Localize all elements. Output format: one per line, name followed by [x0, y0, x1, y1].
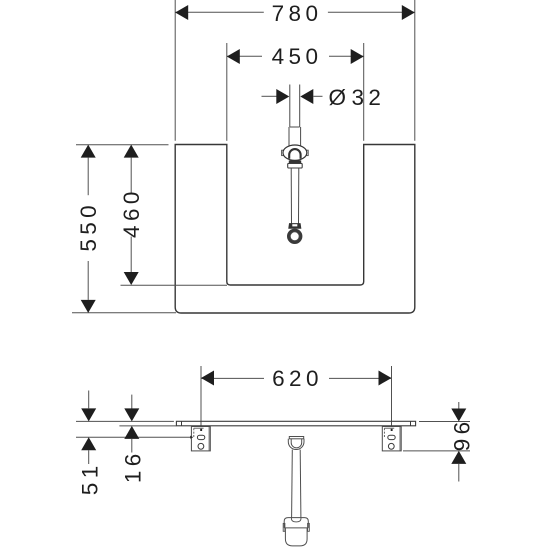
dimension line 460: [130, 158, 132, 272]
svg-text:51: 51: [77, 461, 102, 495]
drain fitting dark band: [289, 160, 301, 163]
extension line right of dim 780: [414, 0, 416, 141]
arrow bottom 550: [81, 300, 96, 313]
extension line right of dim 620: [391, 366, 393, 430]
label Ø32: [328, 85, 380, 110]
label 460: [119, 187, 144, 238]
extension line left of dim 450: [226, 43, 228, 141]
extension line bottom outer (550 datum): [72, 312, 176, 314]
siphon cup: [283, 518, 309, 546]
dimension 16 arrows: [124, 395, 139, 453]
arrow left 780: [175, 5, 188, 20]
extension line bracket bottom right (96 datum): [403, 450, 470, 452]
dimension line 550: [87, 158, 89, 300]
label 620: [272, 366, 323, 391]
drain hose end cap: [289, 224, 301, 229]
dimension Ø32 leader left: [262, 95, 277, 97]
arrow right 450: [351, 49, 364, 64]
arrow Ø32 right (points left): [300, 89, 313, 104]
extension line right of dim 450: [363, 43, 365, 141]
dimension Ø32 leader right: [313, 95, 322, 97]
extension line plate bottom left (16 datum): [119, 425, 176, 427]
svg-text:550: 550: [76, 201, 101, 252]
dimension 51 arrows: [81, 391, 96, 465]
extension line top (550/460 datum): [76, 144, 169, 146]
siphon pipe: [292, 450, 301, 518]
arrow right 780: [402, 5, 415, 20]
right bracket: [382, 427, 401, 451]
dimension line 450: [227, 55, 364, 57]
dimension line 780: [175, 11, 415, 13]
arrow top 460: [124, 145, 139, 158]
arrow left 620: [201, 371, 214, 386]
drain pipe top section: [289, 85, 301, 146]
console plate: [176, 421, 415, 426]
svg-text:3: 3: [351, 85, 364, 110]
left bracket: [191, 427, 210, 451]
drain fitting side tabs: [282, 150, 309, 155]
extension line bottom inner (460 datum): [121, 284, 228, 286]
arrow right 620: [379, 371, 392, 386]
arrow Ø32 left (points right): [276, 89, 289, 104]
basin outline (top view): [175, 145, 415, 314]
arrow left 450: [227, 49, 240, 64]
extension line left of dim 780: [174, 0, 176, 141]
label 780: [272, 1, 323, 26]
dimension 96 arrows: [451, 402, 466, 482]
label 51: [77, 461, 102, 495]
arrow bottom 460: [124, 272, 139, 285]
svg-text:2: 2: [368, 85, 381, 110]
svg-text:450: 450: [272, 44, 323, 69]
drain hose: [291, 168, 299, 224]
drain fitting collar: [288, 163, 303, 168]
siphon outlet bend: [288, 437, 304, 450]
label 96: [449, 417, 474, 451]
extension line plate top left (51/16 datum): [76, 420, 174, 422]
svg-text:16: 16: [120, 449, 145, 483]
svg-text:Ø: Ø: [328, 85, 346, 110]
label 450: [272, 44, 323, 69]
svg-text:780: 780: [272, 1, 323, 26]
extension line left of dim 620: [200, 366, 202, 430]
drain fitting horseshoe: [289, 149, 300, 159]
drain fitting body ellipse: [283, 145, 307, 160]
drain outlet ring: [289, 230, 301, 242]
label 16: [120, 449, 145, 483]
svg-text:460: 460: [119, 187, 144, 238]
extension line plate top right (96 datum): [419, 421, 470, 423]
svg-text:620: 620: [272, 366, 323, 391]
arrow top 550: [81, 145, 96, 158]
label 550: [76, 201, 101, 252]
dimension line 620: [201, 377, 392, 379]
svg-text:96: 96: [449, 417, 474, 451]
extension line slot center (51 datum): [76, 436, 193, 439]
